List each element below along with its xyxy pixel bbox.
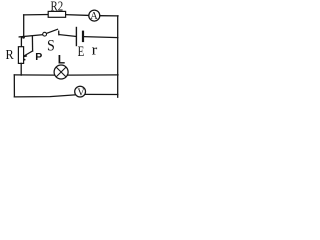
wire voltmeter to right vertical (86, 93, 118, 95)
svg-text:R: R (6, 48, 15, 63)
switch S (43, 29, 59, 54)
lamp L (54, 53, 68, 79)
svg-text:E: E (78, 44, 85, 60)
svg-text:r: r (92, 43, 98, 59)
wire top-left to R2 (24, 14, 49, 16)
wire lamp branch left (14, 74, 55, 76)
wire bottom to voltmeter (14, 95, 76, 97)
rheostat R body (18, 47, 23, 64)
rheostat R wiper arrow (22, 51, 33, 57)
resistor R2 (48, 11, 65, 17)
svg-text:P: P (35, 51, 42, 63)
svg-text:S: S (47, 38, 55, 55)
wire slider tap (31, 37, 33, 51)
svg-text:R2: R2 (51, 0, 64, 13)
ammeter A (89, 10, 100, 21)
wire ammeter to top-right corner (100, 15, 118, 17)
voltmeter V (75, 86, 86, 98)
wire battery to right vertical (84, 37, 118, 38)
svg-text:A: A (90, 11, 98, 22)
svg-text:L: L (58, 53, 65, 67)
svg-text:V: V (77, 87, 85, 98)
wire middle branch to switch (19, 35, 43, 37)
battery E r (76, 28, 97, 61)
node J1 (22, 36, 25, 39)
wire into rheostat top (20, 37, 22, 47)
wire lamp branch right (67, 74, 118, 76)
wire switch to battery (59, 35, 76, 37)
wire rheostat bottom (20, 63, 22, 75)
wire left vertical (23, 15, 25, 38)
wire right vertical (117, 16, 119, 97)
wire R2 to ammeter (66, 14, 89, 17)
wire left riser (13, 75, 15, 97)
